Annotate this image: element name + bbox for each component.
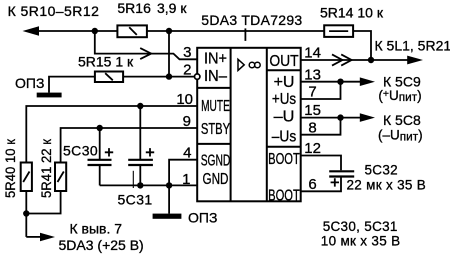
svg-text:9: 9 xyxy=(183,113,191,130)
svg-text:10: 10 xyxy=(176,91,193,108)
wire to +25V arrow xyxy=(26,236,40,238)
svg-text:5R16: 5R16 xyxy=(117,0,151,16)
node pins 15-8 xyxy=(337,114,343,120)
pin 2 open circle xyxy=(195,74,200,79)
svg-text:К 5L1, 5R21: К 5L1, 5R21 xyxy=(375,38,450,54)
wire pin 13 xyxy=(301,81,360,83)
plus sign 5C31 xyxy=(146,148,154,156)
arrow to К 5L1, 5R21 xyxy=(407,56,423,65)
resistor 5R14 xyxy=(324,25,353,37)
svg-text:+Us: +Us xyxy=(272,91,297,108)
double chevron output direction xyxy=(332,54,342,65)
svg-text:5R40 10 к: 5R40 10 к xyxy=(2,138,18,198)
wire 5R40 down xyxy=(25,191,27,237)
svg-text:5С31: 5С31 xyxy=(118,191,153,207)
ground ОПЗ top-left bar xyxy=(37,93,62,98)
wire pin 9 STBY xyxy=(61,128,198,163)
arrow to К 5C9 xyxy=(360,77,375,86)
svg-text:7: 7 xyxy=(308,84,316,101)
node output junction xyxy=(368,57,374,63)
svg-text:К выв. 7: К выв. 7 xyxy=(70,220,123,236)
capacitor C30 5C30 xyxy=(99,128,101,159)
svg-text:4: 4 xyxy=(183,145,191,162)
arrow to К выв. 7 xyxy=(40,233,55,242)
leader tick from 5DA3 label xyxy=(244,28,246,41)
node SGND on bus xyxy=(166,182,172,188)
svg-text:IN+: IN+ xyxy=(204,51,227,68)
resistor 5R40 xyxy=(21,163,32,192)
svg-text:5DA3 TDA7293: 5DA3 TDA7293 xyxy=(201,12,302,28)
svg-text:5R15 1 к: 5R15 1 к xyxy=(78,54,134,70)
plus sign 5C30 xyxy=(105,148,113,156)
wire input top line xyxy=(38,30,117,32)
svg-text:GND: GND xyxy=(203,171,229,188)
svg-text:MUTE: MUTE xyxy=(201,98,230,115)
wire pin 7 xyxy=(301,82,341,99)
resistor 5R16 xyxy=(117,25,146,37)
wire pin 15 xyxy=(301,117,360,119)
op-amp triangle symbol xyxy=(238,59,244,70)
wire pin 12 xyxy=(301,156,341,171)
wire down to ground xyxy=(168,185,170,213)
node C31 on bus xyxy=(137,182,143,188)
svg-text:8: 8 xyxy=(308,119,316,136)
node mute-cap junction xyxy=(137,103,143,109)
capacitor C32 5C32 xyxy=(329,170,354,172)
svg-text:22 мк х 35 В: 22 мк х 35 В xyxy=(347,177,427,192)
svg-text:К 5С8: К 5С8 xyxy=(383,112,421,128)
svg-text:10 мк х 35 В: 10 мк х 35 В xyxy=(321,233,401,248)
wire 5R14 to output xyxy=(353,31,371,60)
svg-text:5С32: 5С32 xyxy=(365,162,398,177)
node bottom-left junction xyxy=(23,210,29,216)
svg-text:5DA3 (+25 В): 5DA3 (+25 В) xyxy=(59,237,144,253)
svg-text:+U: +U xyxy=(274,74,295,91)
svg-text:ОПЗ: ОПЗ xyxy=(188,210,217,226)
svg-text:5R14 10 к: 5R14 10 к xyxy=(320,4,384,20)
wire 5R41 down to junction xyxy=(26,191,60,214)
svg-text:3,9 к: 3,9 к xyxy=(157,0,187,16)
wire pin 2 xyxy=(123,76,194,78)
svg-text:13: 13 xyxy=(304,66,321,83)
svg-text:OUT: OUT xyxy=(269,53,299,70)
wire down from junction xyxy=(95,31,197,59)
svg-text:ОПЗ: ОПЗ xyxy=(15,75,44,91)
op-amp U1 IC body 5DA3 xyxy=(197,48,301,202)
node input/feedback junction xyxy=(92,28,98,34)
svg-text:(–Uпит): (–Uпит) xyxy=(378,128,423,144)
node pins 13-7 xyxy=(337,79,343,85)
svg-text:STBY: STBY xyxy=(201,121,230,138)
resistor 5R41 xyxy=(55,163,66,192)
ground ОПЗ bottom bar xyxy=(153,214,182,219)
node pin2 junction xyxy=(166,73,172,79)
svg-text:1: 1 xyxy=(182,171,190,188)
chevron signal-direction mark xyxy=(140,48,151,59)
svg-text:2: 2 xyxy=(183,61,191,78)
svg-text:14: 14 xyxy=(304,45,321,62)
wire pin 10 MUTE xyxy=(26,106,197,163)
svg-text:3: 3 xyxy=(183,44,191,61)
svg-text:12: 12 xyxy=(304,140,321,157)
wire pin 8 xyxy=(301,118,341,135)
wire pin 14 output xyxy=(301,59,408,61)
arrow to К 5R10–5R12 xyxy=(23,26,40,35)
svg-text:К 5R10–5R12: К 5R10–5R12 xyxy=(8,3,100,19)
svg-text:–Us: –Us xyxy=(272,128,297,145)
wire pin 6 xyxy=(301,178,341,192)
plus sign 5C32 xyxy=(331,178,339,186)
svg-text:5С30, 5С31: 5С30, 5С31 xyxy=(323,219,398,234)
leader line 5C31 label xyxy=(132,171,134,188)
node stby-cap junction xyxy=(97,125,103,131)
node IN- top junction xyxy=(166,28,172,34)
arrow to К 5C8 xyxy=(360,113,375,122)
svg-text:5R41 22 к: 5R41 22 к xyxy=(38,138,54,198)
svg-text:15: 15 xyxy=(304,102,321,119)
resistor 5R15 xyxy=(95,72,123,83)
wire 5R16 to 5R14 xyxy=(147,30,324,32)
svg-text:6: 6 xyxy=(308,176,316,193)
capacitor C31 5C31 xyxy=(139,106,141,159)
wire vertical to pin 2 xyxy=(168,31,170,77)
svg-text:BOOT: BOOT xyxy=(268,151,300,168)
svg-text:–U: –U xyxy=(274,109,295,126)
wire pin 4 SGND xyxy=(169,160,197,186)
svg-text:IN–: IN– xyxy=(204,68,227,85)
svg-text:5С30: 5С30 xyxy=(63,143,98,159)
svg-text:SGND: SGND xyxy=(201,153,231,170)
wire ОПЗ to 5R15 xyxy=(49,77,95,93)
wire GND bus pin 1 xyxy=(100,184,198,186)
svg-text:BOOT: BOOT xyxy=(268,188,300,205)
infinity symbol xyxy=(249,62,255,68)
